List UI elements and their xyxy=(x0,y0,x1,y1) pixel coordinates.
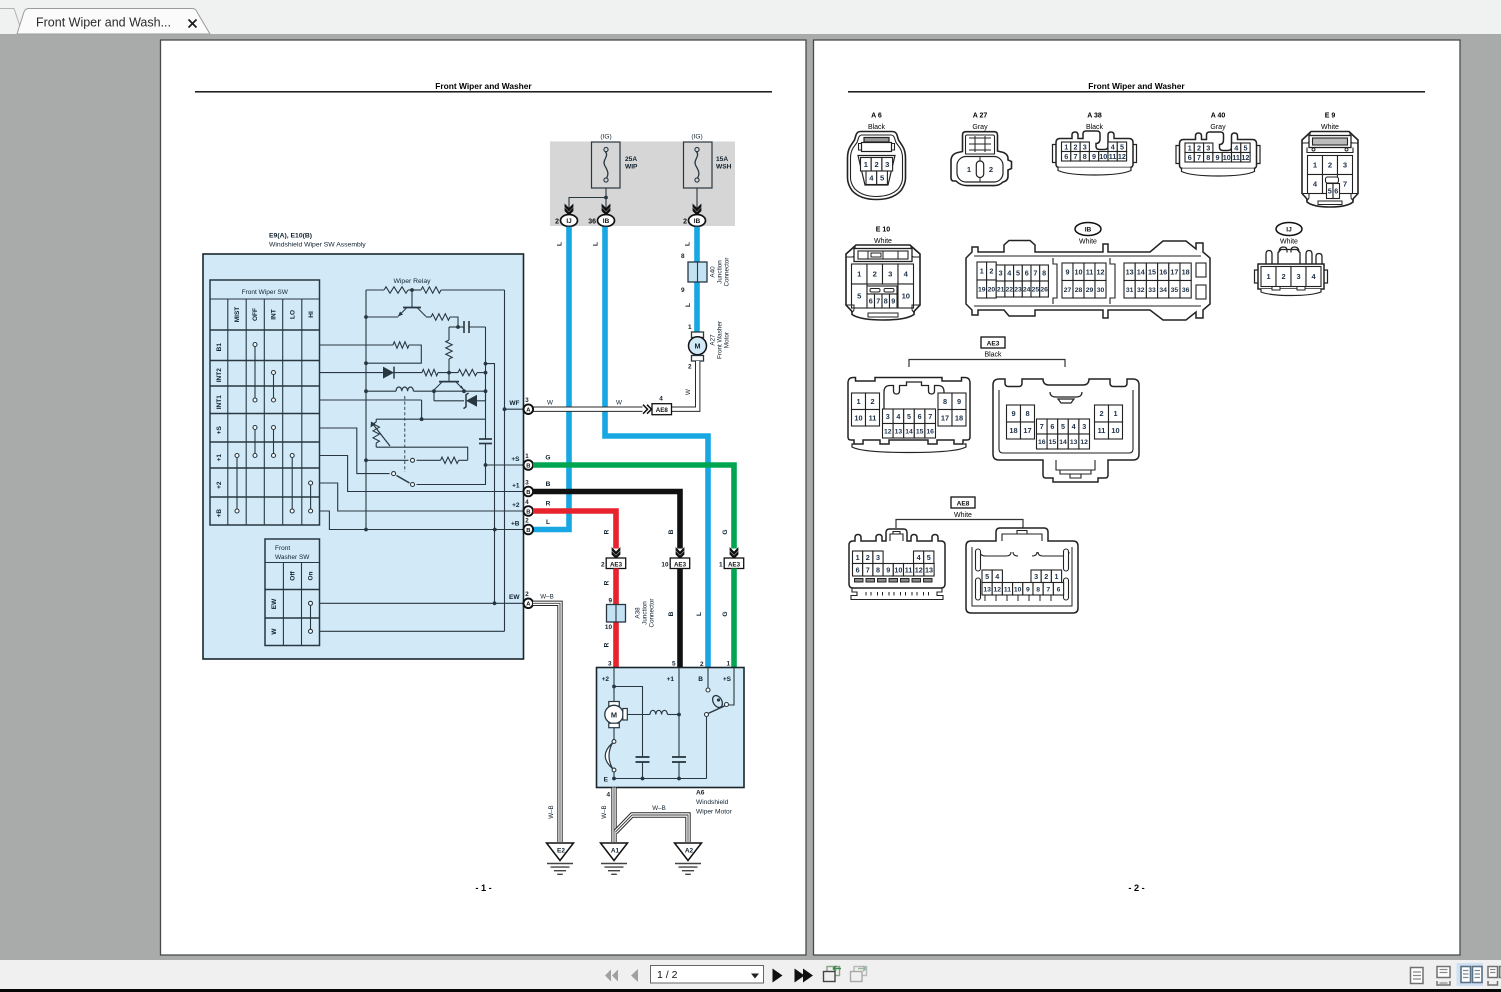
svg-text:A27: A27 xyxy=(710,334,717,346)
svg-text:B1: B1 xyxy=(216,343,223,352)
junction AE8 label xyxy=(896,497,1023,528)
svg-text:15: 15 xyxy=(916,428,924,435)
wire W washer motor to AE8 (white) xyxy=(671,361,698,409)
svg-text:+2: +2 xyxy=(602,676,610,683)
svg-text:8: 8 xyxy=(1083,152,1087,161)
page 1 sheet xyxy=(161,40,807,955)
svg-text:2: 2 xyxy=(989,267,993,276)
connector IJ White xyxy=(1255,223,1328,296)
svg-text:4: 4 xyxy=(1007,269,1011,278)
svg-text:13: 13 xyxy=(1070,439,1078,446)
svg-text:2: 2 xyxy=(1281,272,1285,281)
svg-text:2: 2 xyxy=(1074,142,1078,151)
connector A40 Gray xyxy=(1176,113,1260,177)
svg-text:A6: A6 xyxy=(696,790,705,797)
svg-text:8: 8 xyxy=(884,297,888,306)
svg-text:B: B xyxy=(668,611,675,616)
node IJ pin 2 xyxy=(555,215,577,227)
svg-text:28: 28 xyxy=(1075,287,1083,294)
svg-text:White: White xyxy=(1280,239,1298,246)
svg-text:E: E xyxy=(604,777,609,784)
svg-text:12: 12 xyxy=(884,428,892,435)
svg-text:B: B xyxy=(526,509,530,515)
relay zener diode xyxy=(434,391,486,408)
INT1 wire to timing node xyxy=(320,400,424,421)
front washer SW table xyxy=(265,539,320,646)
svg-text:35: 35 xyxy=(1171,287,1179,294)
svg-text:Front Wiper and Washer: Front Wiper and Washer xyxy=(435,81,532,91)
connector arrow IB washer xyxy=(693,204,702,216)
page 1 title xyxy=(195,81,772,92)
wire fuse WIP to connectors xyxy=(569,188,697,211)
svg-text:9: 9 xyxy=(1216,153,1220,162)
svg-text:12: 12 xyxy=(915,565,923,574)
svg-text:OFF: OFF xyxy=(252,308,259,321)
svg-text:14: 14 xyxy=(905,428,913,435)
wire R to motor +2 with junction A38 xyxy=(604,569,617,668)
svg-text:A1: A1 xyxy=(611,848,620,855)
svg-text:+S: +S xyxy=(511,456,520,463)
svg-text:E2: E2 xyxy=(557,848,565,855)
svg-text:L: L xyxy=(685,303,692,307)
motor label A6 xyxy=(696,790,733,816)
svg-text:1: 1 xyxy=(719,562,723,569)
svg-text:8: 8 xyxy=(1206,153,1210,162)
svg-text:1: 1 xyxy=(726,661,730,668)
svg-text:AE3: AE3 xyxy=(610,561,623,568)
bottom black strip xyxy=(0,989,1501,992)
washer motor A27 xyxy=(688,321,731,370)
svg-text:16: 16 xyxy=(1038,439,1046,446)
wire L from IB2 to washer motor (cyan) xyxy=(685,227,698,332)
svg-text:1: 1 xyxy=(1113,409,1117,418)
svg-text:10: 10 xyxy=(1014,586,1022,593)
svg-text:6: 6 xyxy=(869,297,873,306)
svg-text:17: 17 xyxy=(1023,426,1031,435)
svg-text:6: 6 xyxy=(1064,152,1068,161)
svg-text:WIP: WIP xyxy=(625,164,638,171)
junction AE3 arrow red wire xyxy=(601,547,626,569)
wire B +1 to AE3 (black) xyxy=(533,481,680,549)
svg-text:8: 8 xyxy=(681,253,685,260)
svg-text:2: 2 xyxy=(870,397,874,406)
relay variable resistor xyxy=(371,419,391,447)
svg-text:25A: 25A xyxy=(625,156,637,163)
svg-text:Windshield: Windshield xyxy=(696,799,729,806)
svg-text:34: 34 xyxy=(1159,287,1167,294)
svg-text:4: 4 xyxy=(1072,422,1076,431)
svg-text:2: 2 xyxy=(1099,409,1103,418)
svg-text:3: 3 xyxy=(885,160,889,169)
svg-text:1: 1 xyxy=(1064,142,1068,151)
svg-text:1: 1 xyxy=(1055,572,1059,581)
svg-text:IJ: IJ xyxy=(1286,227,1292,234)
connector E10 White xyxy=(846,227,920,321)
relay B1 resistor loop xyxy=(320,342,422,363)
svg-text:AE8: AE8 xyxy=(957,501,970,508)
wire WF output xyxy=(503,407,524,411)
svg-text:LO: LO xyxy=(289,310,296,319)
svg-text:3: 3 xyxy=(525,397,529,404)
svg-text:INT2: INT2 xyxy=(216,368,223,382)
svg-text:20: 20 xyxy=(988,287,996,294)
svg-text:7: 7 xyxy=(1197,153,1201,162)
wire +B row xyxy=(320,511,524,530)
svg-text:Gray: Gray xyxy=(1210,124,1226,131)
svg-text:2: 2 xyxy=(1197,143,1201,152)
next view button (disabled) xyxy=(851,966,867,982)
svg-text:R: R xyxy=(604,642,611,647)
svg-text:+S: +S xyxy=(216,425,223,434)
svg-text:A2: A2 xyxy=(685,848,694,855)
fuse WIP 25A xyxy=(592,134,639,189)
svg-text:7: 7 xyxy=(876,297,880,306)
svg-text:A 27: A 27 xyxy=(973,113,988,120)
motor brush crescent xyxy=(605,728,616,779)
svg-text:B: B xyxy=(668,529,675,534)
svg-text:16: 16 xyxy=(1159,267,1167,276)
svg-text:1: 1 xyxy=(856,397,860,406)
svg-text:7: 7 xyxy=(866,565,870,574)
svg-text:4: 4 xyxy=(525,499,529,506)
svg-text:11: 11 xyxy=(1098,426,1106,435)
motor M armature xyxy=(605,668,628,728)
svg-text:B: B xyxy=(526,463,530,469)
nav first page button xyxy=(605,970,618,982)
relay switch arm xyxy=(320,428,486,487)
svg-text:16: 16 xyxy=(926,428,934,435)
wire L from IJ to +B (cyan) xyxy=(533,227,569,530)
svg-text:8: 8 xyxy=(1036,586,1040,593)
svg-text:1: 1 xyxy=(525,453,529,460)
svg-text:36: 36 xyxy=(1182,287,1190,294)
svg-text:A40: A40 xyxy=(710,266,717,278)
svg-text:19: 19 xyxy=(978,287,986,294)
svg-text:10: 10 xyxy=(1099,152,1107,161)
svg-text:4: 4 xyxy=(896,412,900,421)
svg-text:AE8: AE8 xyxy=(656,407,669,414)
svg-text:W: W xyxy=(271,628,278,635)
svg-text:12: 12 xyxy=(1241,153,1249,162)
svg-text:3: 3 xyxy=(525,479,529,486)
svg-text:6: 6 xyxy=(1334,187,1338,196)
svg-text:9: 9 xyxy=(1011,409,1015,418)
relay timing line and cap C2 xyxy=(376,419,492,467)
svg-text:Wiper Relay: Wiper Relay xyxy=(393,278,431,285)
svg-text:AE3: AE3 xyxy=(728,561,741,568)
svg-text:On: On xyxy=(308,571,315,580)
wire W-B motor E to ground A1 xyxy=(601,788,614,843)
wiper relay circuit xyxy=(364,278,504,631)
svg-text:12: 12 xyxy=(1097,267,1105,276)
svg-text:4: 4 xyxy=(995,572,999,581)
svg-text:3: 3 xyxy=(1082,422,1086,431)
svg-text:9: 9 xyxy=(681,287,685,294)
svg-text:Connector: Connector xyxy=(649,598,656,627)
wire W-B branch to ground A2 xyxy=(616,805,689,842)
wire R +2 to AE3 (red) xyxy=(533,501,616,549)
svg-text:Front Washer: Front Washer xyxy=(717,321,724,359)
svg-text:+S: +S xyxy=(723,676,732,683)
svg-text:3: 3 xyxy=(1034,572,1038,581)
svg-text:+1: +1 xyxy=(512,482,520,489)
svg-text:33: 33 xyxy=(1148,287,1156,294)
svg-text:6: 6 xyxy=(856,565,860,574)
ground A1 xyxy=(601,843,628,874)
wire +S output xyxy=(486,464,524,466)
svg-text:Black: Black xyxy=(984,352,1002,359)
svg-text:7: 7 xyxy=(1074,152,1078,161)
svg-text:1: 1 xyxy=(856,553,860,562)
svg-text:6: 6 xyxy=(918,412,922,421)
svg-text:15A: 15A xyxy=(716,156,728,163)
relay VR to contact resistor loop xyxy=(366,447,468,463)
svg-text:W–B: W–B xyxy=(601,805,608,818)
svg-text:10: 10 xyxy=(902,292,910,301)
front wiper SW table xyxy=(210,280,320,525)
wire L from IB36 to wiper motor B (cyan) xyxy=(593,227,709,668)
svg-text:18: 18 xyxy=(955,413,963,422)
svg-text:8: 8 xyxy=(943,397,947,406)
svg-text:A 6: A 6 xyxy=(871,113,882,120)
wiper SW contacts xyxy=(235,343,313,514)
page 2 number xyxy=(1128,883,1144,893)
svg-text:IJ: IJ xyxy=(566,218,572,225)
svg-text:1: 1 xyxy=(1188,143,1192,152)
svg-text:1: 1 xyxy=(1266,272,1270,281)
svg-text:15: 15 xyxy=(1148,267,1156,276)
svg-text:Black: Black xyxy=(868,124,886,131)
node IB pin 36 xyxy=(588,215,614,227)
svg-text:INT: INT xyxy=(271,309,278,320)
connector AE3 male xyxy=(848,378,970,453)
svg-text:24: 24 xyxy=(1023,287,1031,294)
junction AE3 arrow black wire xyxy=(661,547,689,569)
svg-text:R: R xyxy=(604,529,611,534)
svg-text:WF: WF xyxy=(509,400,519,407)
svg-text:White: White xyxy=(1321,124,1339,131)
svg-text:Junction: Junction xyxy=(642,601,649,625)
svg-text:2: 2 xyxy=(989,165,993,174)
svg-text:10: 10 xyxy=(854,413,862,422)
connector IB White xyxy=(966,223,1210,321)
svg-text:18: 18 xyxy=(1182,267,1190,276)
svg-text:2: 2 xyxy=(688,364,692,371)
motor noise capacitor 2 xyxy=(672,668,686,779)
svg-text:3: 3 xyxy=(888,270,892,279)
svg-text:7: 7 xyxy=(1343,180,1347,189)
relay transistor Q2 xyxy=(432,373,466,394)
node WF pin3 circle A xyxy=(509,397,533,414)
svg-text:4: 4 xyxy=(659,396,663,403)
svg-text:2: 2 xyxy=(873,270,877,279)
svg-text:W: W xyxy=(616,400,622,407)
svg-text:30: 30 xyxy=(1097,287,1105,294)
svg-text:7: 7 xyxy=(928,412,932,421)
svg-text:IB: IB xyxy=(603,218,610,225)
svg-text:HI: HI xyxy=(308,311,315,318)
svg-text:12: 12 xyxy=(1080,439,1088,446)
svg-text:2: 2 xyxy=(874,160,878,169)
svg-text:2: 2 xyxy=(601,562,605,569)
svg-text:B: B xyxy=(698,676,703,683)
svg-text:5: 5 xyxy=(672,661,676,668)
svg-text:A38: A38 xyxy=(635,607,642,619)
svg-text:B: B xyxy=(526,490,530,496)
svg-text:EW: EW xyxy=(271,598,278,609)
connector AE8 male xyxy=(849,529,945,600)
svg-text:23: 23 xyxy=(1014,287,1022,294)
svg-text:G: G xyxy=(722,529,729,534)
connector A27 Gray xyxy=(951,113,1012,186)
svg-text:(IG): (IG) xyxy=(600,134,611,141)
svg-text:IB: IB xyxy=(1085,227,1092,234)
svg-text:13: 13 xyxy=(925,565,933,574)
svg-text:B: B xyxy=(526,528,530,534)
svg-text:2: 2 xyxy=(555,219,559,226)
svg-text:+B: +B xyxy=(511,520,520,527)
svg-text:3: 3 xyxy=(1296,272,1300,281)
svg-text:M: M xyxy=(695,342,701,351)
svg-text:27: 27 xyxy=(1064,287,1072,294)
node +1 pin3 circle B xyxy=(512,479,533,496)
svg-text:11: 11 xyxy=(1004,586,1011,593)
svg-text:6: 6 xyxy=(1188,153,1192,162)
connector AE3 female xyxy=(993,379,1139,482)
svg-text:5: 5 xyxy=(1120,142,1124,151)
svg-text:5: 5 xyxy=(1016,269,1020,278)
svg-text:5: 5 xyxy=(927,553,931,562)
svg-text:1: 1 xyxy=(980,267,984,276)
svg-text:31: 31 xyxy=(1126,287,1134,294)
svg-text:9: 9 xyxy=(1026,586,1030,593)
wire EW row xyxy=(320,602,524,604)
wire +1 row xyxy=(320,456,524,492)
svg-text:- 1 -: - 1 - xyxy=(475,883,491,893)
svg-text:EW: EW xyxy=(509,594,520,601)
connector E9 White xyxy=(1302,113,1358,208)
svg-text:5: 5 xyxy=(985,572,989,581)
svg-text:13: 13 xyxy=(1126,267,1134,276)
svg-text:5: 5 xyxy=(1061,422,1065,431)
svg-text:+2: +2 xyxy=(512,502,520,509)
svg-text:9: 9 xyxy=(891,297,895,306)
wire W row xyxy=(320,630,505,632)
svg-text:Front: Front xyxy=(275,545,290,552)
junction connector A40 xyxy=(681,253,731,294)
svg-text:6: 6 xyxy=(1050,422,1054,431)
svg-text:L: L xyxy=(593,242,600,246)
svg-text:36: 36 xyxy=(588,219,596,226)
svg-text:Junction: Junction xyxy=(717,260,724,284)
svg-text:2: 2 xyxy=(525,517,529,524)
svg-text:3: 3 xyxy=(876,553,880,562)
svg-text:11: 11 xyxy=(1232,153,1240,162)
motor park cam switch xyxy=(705,668,735,779)
node +S pin1 circle B xyxy=(511,453,533,470)
connector A6 Black xyxy=(848,113,906,200)
svg-text:15: 15 xyxy=(1049,439,1057,446)
relay INT2 line: diode and resistors xyxy=(320,367,486,379)
svg-text:11: 11 xyxy=(1109,152,1117,161)
previous view button xyxy=(824,966,842,982)
motor choke coil xyxy=(628,710,681,716)
svg-text:G: G xyxy=(722,611,729,616)
page 1 number xyxy=(475,883,491,893)
svg-text:9: 9 xyxy=(608,598,612,605)
svg-text:18: 18 xyxy=(1009,426,1017,435)
svg-text:1: 1 xyxy=(688,324,692,331)
view two-page icon (selected) xyxy=(1457,963,1484,986)
fuse WSH 15A xyxy=(684,134,732,189)
windshield wiper SW assembly E9/E10 box xyxy=(203,233,524,660)
wire W-B from EW to ground E2 xyxy=(533,594,560,843)
svg-text:8: 8 xyxy=(1042,269,1046,278)
svg-text:L: L xyxy=(546,519,550,526)
svg-text:3: 3 xyxy=(999,269,1003,278)
page number combobox xyxy=(651,966,764,984)
svg-text:+1: +1 xyxy=(667,676,675,683)
view continuous icon xyxy=(1437,967,1450,986)
wire L +B label xyxy=(546,519,550,526)
wire W from WF output to AE8 (white) xyxy=(533,400,643,410)
svg-text:21: 21 xyxy=(997,287,1005,294)
svg-text:5: 5 xyxy=(907,412,911,421)
svg-text:26: 26 xyxy=(1040,287,1048,294)
svg-text:White: White xyxy=(1079,239,1097,246)
relay coil INT1 line xyxy=(366,387,486,391)
svg-text:6: 6 xyxy=(1025,269,1029,278)
svg-text:2: 2 xyxy=(866,553,870,562)
svg-text:4: 4 xyxy=(606,792,610,799)
svg-text:B: B xyxy=(546,481,551,488)
svg-text:+1: +1 xyxy=(216,454,223,462)
motor ground rail E xyxy=(604,777,707,784)
svg-text:9: 9 xyxy=(1066,267,1070,276)
svg-text:4: 4 xyxy=(1111,142,1115,151)
svg-text:14: 14 xyxy=(1137,267,1145,276)
svg-text:17: 17 xyxy=(1170,267,1178,276)
junction AE3 arrow green wire xyxy=(719,547,744,569)
svg-text:White: White xyxy=(954,512,972,519)
ground E2 xyxy=(547,843,574,874)
svg-text:Motor: Motor xyxy=(724,332,731,348)
svg-text:17: 17 xyxy=(941,413,949,422)
svg-text:WSH: WSH xyxy=(716,164,732,171)
svg-text:25: 25 xyxy=(1032,287,1040,294)
svg-text:AE3: AE3 xyxy=(674,561,687,568)
svg-text:W: W xyxy=(547,400,553,407)
svg-text:Front Wiper and Washer: Front Wiper and Washer xyxy=(1088,81,1185,91)
nav next page button xyxy=(773,969,783,983)
bottom toolbar xyxy=(0,960,1501,989)
svg-text:10: 10 xyxy=(661,562,669,569)
svg-text:4: 4 xyxy=(1234,143,1238,152)
svg-text:White: White xyxy=(874,238,892,245)
svg-text:Wiper Motor: Wiper Motor xyxy=(696,809,733,816)
svg-text:3: 3 xyxy=(1083,142,1087,151)
svg-text:INT1: INT1 xyxy=(216,395,223,409)
svg-text:10: 10 xyxy=(894,565,902,574)
svg-text:Front Wiper and Wash...: Front Wiper and Wash... xyxy=(36,16,171,30)
relay mechanical link (dashed) xyxy=(404,396,406,472)
wire G +S to AE3 (green) xyxy=(533,455,734,549)
svg-text:A 38: A 38 xyxy=(1087,113,1102,120)
svg-text:MIST: MIST xyxy=(234,307,241,323)
svg-text:- 2 -: - 2 - xyxy=(1128,883,1144,893)
svg-text:Black: Black xyxy=(1086,124,1104,131)
svg-text:4: 4 xyxy=(917,553,921,562)
